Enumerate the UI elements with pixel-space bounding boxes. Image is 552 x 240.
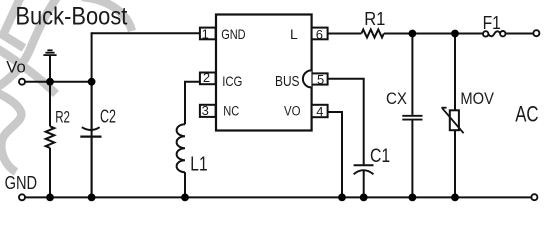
svg-text:1: 1: [202, 27, 209, 42]
svg-text:AC: AC: [515, 102, 538, 127]
svg-text:NC: NC: [223, 104, 239, 119]
svg-text:C1: C1: [370, 146, 390, 167]
svg-text:GND: GND: [221, 26, 245, 42]
svg-text:CX: CX: [386, 90, 407, 108]
svg-text:ICG: ICG: [222, 73, 242, 89]
svg-text:5: 5: [317, 72, 324, 87]
svg-text:2: 2: [203, 70, 210, 85]
svg-text:VO: VO: [284, 104, 301, 119]
svg-text:F1: F1: [483, 13, 501, 33]
svg-text:R2: R2: [55, 107, 70, 126]
svg-text:Buck-Boost: Buck-Boost: [15, 3, 127, 31]
svg-text:C2: C2: [100, 106, 116, 127]
svg-text:GND: GND: [5, 173, 38, 193]
svg-text:3: 3: [202, 103, 209, 118]
svg-text:L1: L1: [190, 153, 207, 175]
svg-text:Vo: Vo: [6, 57, 26, 76]
svg-text:BUS: BUS: [275, 74, 300, 90]
svg-text:6: 6: [316, 27, 323, 42]
svg-text:MOV: MOV: [460, 90, 494, 108]
svg-text:R1: R1: [364, 8, 385, 29]
svg-text:L: L: [290, 26, 298, 42]
svg-text:4: 4: [316, 104, 323, 119]
